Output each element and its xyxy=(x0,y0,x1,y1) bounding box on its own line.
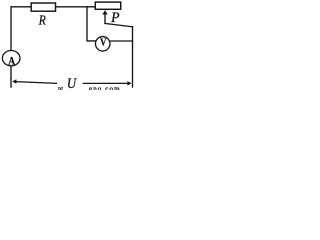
svg-text:V: V xyxy=(100,37,106,49)
wire junction to voltmeter (down then right) xyxy=(87,7,95,41)
wiper arrow shaft xyxy=(104,13,106,23)
bottom right arrow line xyxy=(83,82,127,84)
bottom left arrow line xyxy=(16,82,56,84)
bottom left arrowhead xyxy=(12,79,16,83)
svg-text:R: R xyxy=(38,13,46,28)
wiper wire to right rail (slight slope) xyxy=(105,23,133,26)
bottom right arrowhead xyxy=(127,81,131,86)
right rail wire xyxy=(132,27,134,87)
ammeter A circle xyxy=(2,51,20,66)
wire resistor to potentiometer xyxy=(56,6,95,8)
resistor R xyxy=(31,3,55,11)
potentiometer P box xyxy=(95,2,120,9)
wiper arrowhead xyxy=(102,10,107,14)
svg-text:eno.com: eno.com xyxy=(89,85,121,90)
voltmeter V circle xyxy=(95,37,110,52)
left rail wire below ammeter xyxy=(10,66,12,87)
wire top-left corner xyxy=(11,7,31,51)
svg-text:U: U xyxy=(67,76,77,90)
svg-text:P: P xyxy=(110,10,119,26)
svg-text:nt: nt xyxy=(58,86,63,90)
svg-text:A: A xyxy=(8,54,15,68)
voltmeter right wire xyxy=(111,40,133,42)
